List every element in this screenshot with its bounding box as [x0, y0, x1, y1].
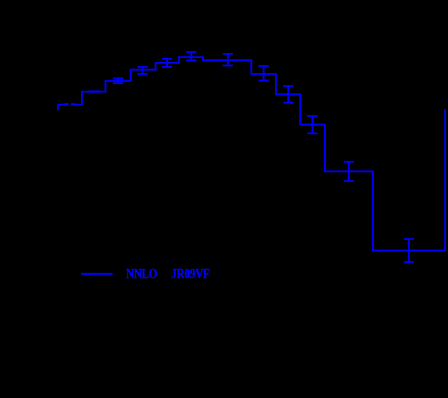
legend line sample	[81, 273, 113, 275]
error bar bin12	[307, 116, 317, 133]
error bar bin6	[137, 67, 147, 74]
legend text NNLO JR09VF	[126, 267, 210, 283]
error bar bin13	[344, 162, 354, 181]
error bar bin11	[283, 86, 293, 103]
histogram step outline bin2	[71, 104, 82, 106]
histogram step outline bin1	[58, 104, 69, 106]
error bar bin2	[71, 103, 75, 105]
error bar bin5	[113, 78, 123, 83]
histogram step outline main	[82, 57, 445, 250]
error bar bin4	[94, 90, 99, 92]
error bar bin3	[89, 90, 94, 92]
error bar bin8	[186, 52, 196, 60]
error bar bin9	[223, 54, 233, 66]
error bar bin1	[64, 103, 68, 105]
histogram step outline left stub	[57, 105, 59, 111]
error bar bin7	[162, 59, 172, 67]
error bar bin14	[404, 239, 414, 262]
error bar bin10	[259, 66, 269, 81]
